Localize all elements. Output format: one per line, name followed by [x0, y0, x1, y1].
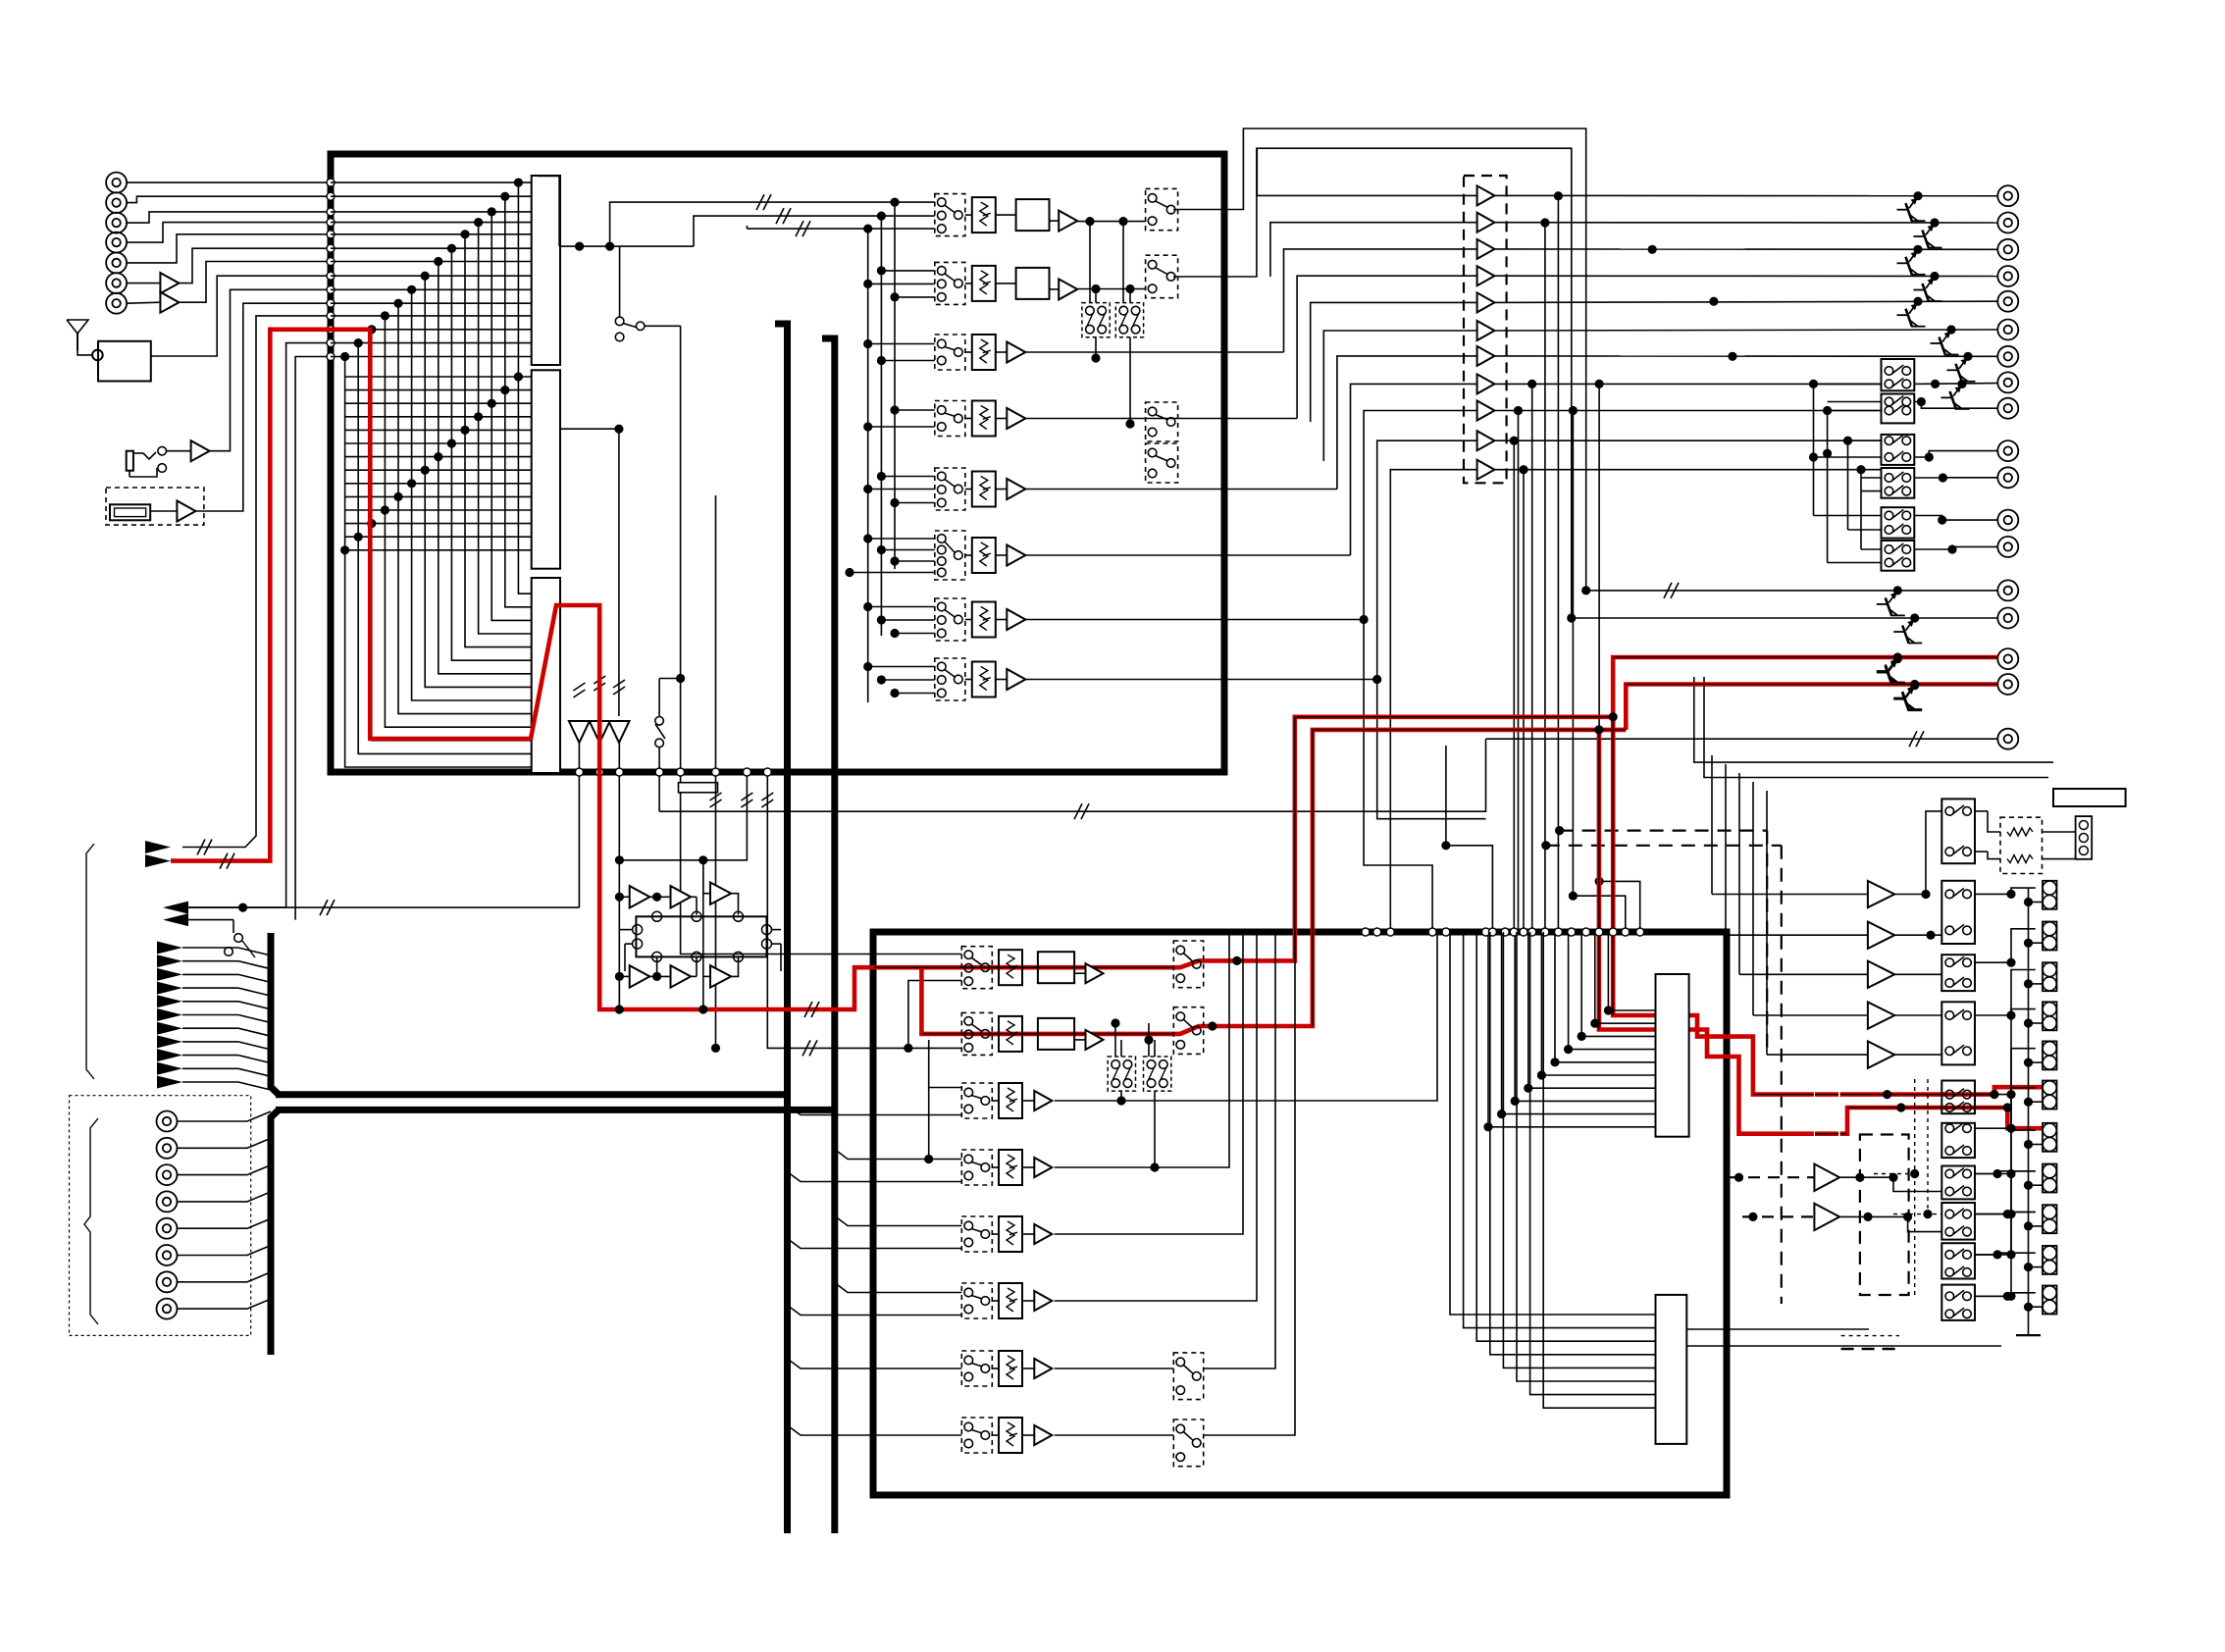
signal path (red) left: [171, 330, 874, 1009]
signal path red through P7: [1815, 1131, 1838, 1136]
power buffer P5: [1868, 1041, 1894, 1067]
arrow in 3: [157, 968, 182, 981]
record out r7: [1055, 1368, 1174, 1369]
wire co15: [1572, 617, 1998, 619]
power buffer P4: [1868, 1002, 1894, 1028]
row rail RA: [894, 202, 896, 569]
wire P4 in: [1753, 1014, 1868, 1016]
signal path (red) out R: [1626, 685, 1997, 730]
wire r2 cn: [2043, 858, 2076, 860]
signal path (red) final R: [1840, 1108, 2043, 1134]
record twin FS3: [1108, 1057, 1135, 1091]
dsp switch box: [636, 916, 766, 956]
rail link: [2029, 1061, 2044, 1063]
selector block K1: [532, 176, 560, 365]
relay K11: [1882, 394, 1915, 424]
wire sw1 r1: [1975, 810, 1988, 812]
bus slash: [1074, 803, 1082, 819]
wire h925: [243, 906, 580, 908]
function switch FS2: [1115, 303, 1143, 337]
signal path (red) xbar R: [1599, 730, 1656, 1030]
wire v1630: [1599, 384, 1640, 932]
feedthrough: [677, 768, 685, 776]
record row 4 feed a: [788, 1172, 962, 1182]
pair connector PC4: [2043, 1002, 2057, 1030]
feedthrough: [595, 768, 603, 776]
row 5 input wires: [895, 409, 935, 411]
bus vertical B2: [822, 338, 835, 1533]
record row 8 feed a: [788, 1425, 962, 1435]
antenna ANT: [67, 320, 88, 334]
dsp buffer C6: [710, 965, 731, 987]
dsp right links: [772, 929, 782, 931]
relay feed F2: [1827, 411, 1829, 563]
wire co18: [1486, 738, 1998, 740]
signal path (red) out L: [1613, 657, 1997, 717]
transistor Q8: [1893, 586, 1902, 594]
feedthrough: [327, 312, 335, 320]
transistor Q12: [1889, 657, 1897, 670]
arrow in 1: [157, 942, 182, 955]
feedthrough: [327, 219, 335, 227]
transistor Q2: [1930, 218, 1939, 227]
wire CN3: [127, 212, 331, 223]
brace: [84, 1118, 98, 1324]
wire SW8 out: [1975, 1213, 2011, 1215]
speaker resistor box: [2000, 817, 2043, 873]
wire fs verticals: [1089, 226, 1091, 303]
input connector CN5: [106, 252, 127, 273]
dsp buffer C5: [671, 965, 692, 987]
transistor Q6: [1946, 325, 1955, 334]
option connector OC7: [157, 1271, 178, 1292]
output connector CO10: [1997, 440, 2018, 461]
pair connector PC6: [2043, 1081, 2057, 1110]
slash marks lower: [710, 793, 722, 800]
wire r7 branch: [1364, 620, 1432, 933]
wire sw1 r2: [1975, 851, 1988, 852]
bank buffer T8: [1477, 374, 1495, 393]
wire T7 out: [1494, 355, 1997, 357]
pair connector PC9: [2043, 1205, 2057, 1233]
wire SW4 out: [1975, 1014, 2011, 1016]
wire SW9 out: [1975, 1254, 2011, 1256]
row 7 input wires: [868, 538, 935, 540]
signal path black cores: [874, 966, 1174, 968]
wire T3 out: [1494, 248, 1997, 250]
wire CN7: [127, 302, 160, 303]
red slash: [804, 1002, 812, 1017]
wire P3 in: [1739, 973, 1868, 975]
switch S3: [655, 717, 664, 726]
record rr8 out: [1204, 932, 1295, 1435]
transistor Q4: [1930, 272, 1939, 281]
wire v692b: [680, 679, 682, 783]
input select row 4: [935, 401, 965, 437]
wire v611 stub: [598, 743, 600, 772]
transistor Q10: [1893, 654, 1902, 663]
wire display: [150, 510, 177, 512]
input select row 8: [935, 658, 965, 700]
bank buffer T4: [1477, 266, 1495, 285]
wire R2 out: [1173, 148, 1572, 618]
rail link: [2029, 1306, 2044, 1308]
select switch SW7: [1941, 1166, 1975, 1200]
input connector CN1: [106, 173, 127, 193]
rail link: [2029, 902, 2044, 903]
wire aux4: [295, 357, 331, 920]
record twin FS4: [1144, 1057, 1171, 1091]
transistor Q11: [1910, 681, 1919, 690]
buffer A2: [160, 292, 179, 313]
dsp buffer C2: [671, 886, 692, 907]
switch S2: [615, 317, 624, 326]
input select row 7: [935, 598, 965, 641]
dotted box (option): [70, 1096, 251, 1336]
record row 8: [961, 1418, 992, 1453]
input select row 2: [935, 262, 965, 304]
rail link: [2029, 942, 2044, 944]
record right dswitch RR7: [1173, 1353, 1203, 1400]
arrow source: [145, 854, 171, 867]
relay out wires: [1914, 383, 1997, 386]
wire aux1: [182, 316, 331, 848]
wire T1 out: [1494, 194, 1997, 196]
arrow out L1: [163, 902, 188, 914]
legend dashed thin: [1841, 1335, 1899, 1337]
transistor Q13: [1906, 685, 1915, 697]
wire v1575: [1544, 223, 1546, 932]
wire tb1 b: [1704, 677, 2048, 778]
wire S1 out: [167, 450, 191, 452]
wire CN2: [127, 196, 331, 202]
buffer A1: [160, 273, 179, 293]
relay feed F1: [1813, 384, 1815, 515]
feedthrough: [327, 285, 335, 293]
signal path (red) row2 branch: [921, 967, 1173, 1034]
output connector CO17 (red): [1997, 674, 2018, 695]
output connector CO6: [1997, 320, 2018, 340]
wire SW3 out: [1975, 961, 2011, 963]
pair connector PC8: [2043, 1164, 2057, 1193]
ground GND: [2016, 1334, 2041, 1336]
record out r5: [1055, 932, 1243, 1234]
wire P7 out: [1839, 1216, 1941, 1231]
wire P5 in: [1767, 1054, 1868, 1056]
pair connector PC3: [2043, 962, 2057, 991]
select switch SW10: [1941, 1285, 1975, 1320]
row out r8: [1025, 679, 1376, 681]
wire CN4: [127, 223, 331, 243]
wire v1588: [1557, 196, 1559, 932]
arrow in 8: [157, 1035, 182, 1048]
option connector OC1: [157, 1111, 178, 1132]
select switch SW3: [1941, 955, 1975, 991]
arrow in 4: [157, 982, 182, 995]
record row 2: [961, 1012, 992, 1055]
switch S1 contacts: [158, 446, 167, 455]
option wire 1: [178, 1120, 223, 1122]
input connector CN2: [106, 192, 127, 213]
relay feed F3: [1847, 440, 1849, 530]
select switch SW1: [1941, 799, 1975, 863]
wire T8 in: [1351, 384, 1477, 555]
buffer A4: [177, 501, 195, 522]
signal path (red) row2 switch: [1173, 730, 1626, 1034]
wire co14: [1586, 590, 1998, 592]
terminal block TB1: [2053, 789, 2126, 806]
bank buffer T2: [1477, 213, 1495, 232]
output connector CO12: [1997, 510, 2018, 531]
wire T4 out: [1494, 275, 1997, 277]
wire v729: [715, 495, 717, 1048]
record row 3 feed a: [788, 1106, 962, 1115]
dac triangle V2: [590, 721, 610, 743]
wire T11 out: [1494, 469, 1881, 471]
dashed box E1: [1860, 1135, 1909, 1296]
wire P2 in: [1726, 934, 1868, 936]
output connector CO1: [1997, 185, 2018, 206]
wire A4 out: [195, 303, 331, 511]
row out r7: [1025, 619, 1364, 621]
record row 3: [961, 1083, 992, 1118]
feedthrough: [327, 258, 335, 266]
wire sc3v: [1445, 746, 1447, 846]
wire K2 out: [560, 428, 619, 430]
feedthrough: [763, 768, 771, 776]
record twin wires: [1114, 1023, 1116, 1057]
output connector CO2: [1997, 213, 2018, 233]
output connector CO11: [1997, 467, 2018, 488]
feedthrough: [712, 768, 720, 776]
output connector CO5: [1997, 291, 2018, 312]
block box U2 (record selector block): [873, 932, 1727, 1495]
feedthrough: [327, 299, 335, 307]
option wire 7: [178, 1281, 223, 1283]
ground rail: [2028, 888, 2030, 1335]
wire swJ out: [1975, 1293, 2036, 1297]
switch S5: [234, 934, 243, 943]
box2 top feedthroughs: [1362, 928, 1370, 936]
wire v1548: [1518, 411, 1520, 933]
wire A2 out: [179, 262, 331, 303]
function switch FS1: [1082, 303, 1110, 337]
wire fs out: [1095, 337, 1097, 358]
wire P6 out: [1839, 1177, 1941, 1191]
wire v717: [702, 860, 704, 1009]
dsp buffer C4: [630, 965, 650, 987]
record row 7 feed a: [788, 1359, 962, 1368]
wire aux2: [182, 906, 286, 908]
record out r4: [1055, 932, 1229, 1167]
wire aux3: [286, 343, 331, 908]
rail link: [2029, 1022, 2044, 1024]
wire P1 in: [1712, 894, 1868, 896]
bus bar B5: [271, 933, 279, 1095]
record right dswitch RR2: [1173, 1007, 1203, 1055]
select switch SW9: [1941, 1243, 1975, 1278]
wire P5 out: [1894, 1054, 1941, 1056]
record right dswitch RR1: [1173, 941, 1203, 988]
output connector CO4: [1997, 266, 2018, 286]
row out r4: [1025, 418, 1297, 420]
wire T3 in: [1284, 249, 1477, 352]
relay K14: [1882, 507, 1915, 538]
feedthrough: [327, 192, 335, 200]
bank buffer T1: [1477, 185, 1495, 205]
wire CN6: [127, 283, 160, 284]
wire v1543: [1513, 440, 1515, 932]
display D1: [110, 504, 150, 520]
wire SW10 out: [1975, 1295, 2011, 1297]
wire antenna: [78, 350, 92, 355]
feedthrough: [327, 179, 335, 186]
pair connector PC1: [2043, 881, 2057, 909]
record out r3: [1055, 932, 1437, 1101]
option wire 6: [178, 1255, 223, 1257]
selector block K3: [532, 578, 560, 773]
select switch SW5: [1941, 1081, 1975, 1114]
dashed vertical D3: [1766, 831, 1768, 1055]
wire v1553: [1523, 470, 1525, 932]
bank buffer T10: [1477, 431, 1495, 450]
row 4 input wires: [868, 343, 935, 345]
dsp buffer C1: [630, 886, 650, 907]
record row 5 feed a: [788, 1239, 962, 1249]
input select row 5: [935, 468, 965, 510]
rail link: [2029, 1101, 2044, 1103]
wire r8 branch: [1377, 680, 1486, 819]
record right dswitch RR8: [1173, 1420, 1203, 1467]
wire T7 in: [1337, 356, 1477, 490]
wire K1 top: [538, 177, 559, 247]
option wire 8: [178, 1308, 223, 1310]
select switch SW6: [1941, 1123, 1975, 1158]
bank buffer T6: [1477, 321, 1495, 340]
right dswitch R2: [1146, 255, 1178, 298]
option connector OC5: [157, 1218, 178, 1239]
dashed vertical D4: [1781, 846, 1783, 1304]
feedthrough: [327, 208, 335, 216]
wire swH out: [1975, 1213, 2036, 1214]
relay K10: [1882, 359, 1915, 390]
wire T9 in: [1364, 411, 1477, 620]
power buffer P3: [1868, 961, 1894, 988]
feedthrough: [327, 326, 335, 334]
rail link: [2029, 1266, 2044, 1268]
option connector OC8: [157, 1299, 178, 1319]
record row 5: [961, 1216, 992, 1252]
record row 4 feed b: [835, 1150, 962, 1160]
relay K12: [1882, 435, 1915, 465]
record block K5: [1656, 1295, 1687, 1444]
wire T10 in: [1377, 440, 1477, 679]
wire swI out: [1975, 1253, 2036, 1255]
row 9 input wires: [868, 666, 935, 668]
signal path (red) row1 switch: [1173, 717, 1613, 967]
wire CN1: [127, 181, 331, 183]
relay K15: [1882, 541, 1915, 571]
node antenna circle: [92, 350, 103, 361]
wire r1 cn: [2043, 831, 2076, 833]
row rail RB: [880, 216, 882, 636]
arrow in 10: [157, 1062, 182, 1075]
slash marks below box: [573, 683, 585, 691]
buffer bank box: [1464, 176, 1507, 483]
jack J1: [127, 451, 133, 471]
dsp wiring row2: [619, 975, 629, 977]
arrow in 9: [157, 1049, 182, 1061]
wire SW5 out: [1975, 1094, 2011, 1096]
arrow in 2: [157, 955, 182, 967]
output connector CO9: [1997, 398, 2018, 419]
bus horizontal B3: [276, 1091, 788, 1098]
arrow out L2: [163, 913, 188, 926]
record K5 out: [1686, 1328, 1869, 1330]
row rail RC: [867, 229, 869, 702]
wire P2 out: [1894, 934, 1941, 936]
relay feed F4: [1860, 470, 1862, 549]
wire swG out: [1975, 1171, 2036, 1174]
wire SW2 out: [1975, 893, 2011, 895]
transistor Q14: [1957, 380, 1966, 388]
signal path (red) xbar L: [1613, 717, 1655, 1015]
wire T6 in: [1323, 331, 1476, 461]
rail link: [2029, 983, 2044, 985]
wire tb1 a: [1694, 677, 2053, 762]
select switch SW8: [1941, 1203, 1975, 1240]
signal path (red) exit L: [1689, 1015, 1814, 1095]
option wire 3: [178, 1174, 223, 1176]
wire T2 out: [1494, 222, 1997, 224]
transistor Q7: [1963, 352, 1972, 361]
option wire 5: [178, 1227, 223, 1229]
dac triangle V1: [569, 721, 590, 743]
rail link: [2029, 1184, 2044, 1186]
feedthrough: [327, 272, 335, 280]
bus bar B6: [271, 1110, 279, 1355]
record row 1: [961, 947, 992, 989]
dsp buffer C3: [710, 883, 731, 904]
arrow in 6: [157, 1008, 182, 1021]
dashed feed P7: [1742, 1215, 1814, 1217]
rail link: [2029, 1144, 2044, 1146]
output connector CO15: [1997, 608, 2018, 629]
wire T5 in: [1311, 302, 1477, 422]
wire v761: [619, 772, 747, 860]
wire P4 out: [1894, 1014, 1941, 1016]
input connector CN6: [106, 273, 127, 293]
transistor Q5: [1913, 297, 1922, 306]
dac triangle V3: [609, 721, 630, 743]
bank buffer T9: [1477, 401, 1495, 421]
wire T9 out: [1494, 410, 1881, 412]
pair connector PC10: [2043, 1246, 2057, 1274]
feedthrough: [327, 231, 335, 238]
row out r3: [1025, 351, 1283, 353]
row1 input b: [694, 216, 935, 246]
row 6 input wires: [881, 476, 934, 478]
relay feed wires: [1814, 383, 1882, 385]
selector block K2: [532, 370, 560, 568]
arrow in 11: [157, 1076, 182, 1089]
display unit box: [106, 488, 204, 525]
wire T6 out: [1494, 330, 1997, 331]
link box: [679, 783, 718, 793]
output connector CO13: [1997, 537, 2018, 557]
wire v590: [578, 743, 580, 907]
output connector CO16 (red): [1997, 648, 2018, 669]
